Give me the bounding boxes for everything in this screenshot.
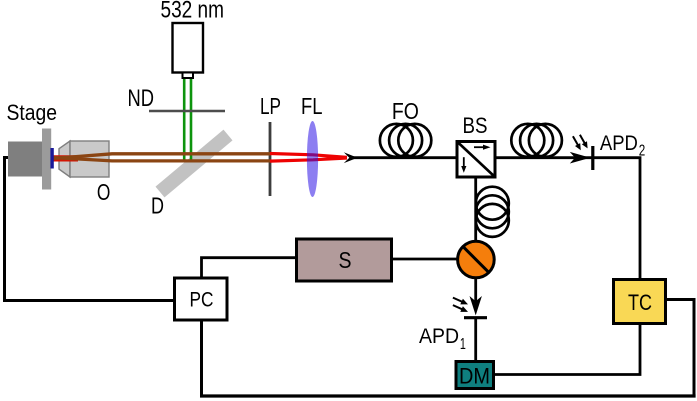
wire APD1 to DM — [474, 319, 477, 361]
red beam cone top — [270, 154, 347, 158]
APD1 facet bar — [464, 316, 487, 319]
svg-text:1: 1 — [460, 336, 466, 353]
ND filter line — [149, 110, 225, 113]
PC box — [175, 278, 228, 320]
wire PC to S — [202, 258, 297, 278]
wire PC to bottom bus — [200, 321, 203, 397]
fiber line BS to APD2 — [495, 156, 592, 159]
S box — [297, 239, 392, 281]
laser nozzle — [183, 73, 194, 79]
TC box — [614, 280, 666, 324]
optical switch (orange) — [458, 241, 495, 278]
photon arrows APD2 — [573, 135, 588, 150]
svg-text:S: S — [339, 247, 352, 273]
svg-text:BS: BS — [463, 113, 488, 138]
photon arrows APD1 — [453, 298, 468, 312]
BS arrow down — [463, 157, 465, 167]
fiber BS down to switch — [474, 177, 477, 243]
green beam line left — [183, 78, 186, 161]
svg-text:2: 2 — [639, 143, 646, 160]
svg-text:532 nm: 532 nm — [161, 0, 225, 24]
red overlap beam at sample — [53, 155, 78, 161]
fiber coil FO — [380, 124, 431, 157]
wire bus to TC right — [666, 300, 694, 397]
laser box — [173, 23, 204, 73]
arrow at fiber focus — [344, 152, 358, 163]
BS diagonal — [457, 142, 495, 178]
fiber switch down to APD1 — [474, 278, 477, 305]
beam splitter BS — [457, 142, 495, 178]
sample (blue bar) — [50, 148, 53, 169]
svg-text:FL: FL — [301, 93, 323, 119]
svg-text:PC: PC — [190, 288, 214, 312]
wire APD2 to TC top — [594, 158, 640, 279]
stage main block — [8, 142, 43, 177]
svg-text:FO: FO — [392, 98, 419, 124]
svg-text:D: D — [151, 193, 164, 219]
green beam line right — [190, 78, 193, 161]
LP filter line — [269, 122, 272, 196]
wire DM to TC bottom — [494, 324, 640, 375]
APD2 facet bar — [591, 146, 594, 170]
arrowhead into APD2 — [570, 152, 591, 164]
stage vertical bar — [42, 129, 51, 190]
fiber coil 3 (vertical) — [476, 187, 509, 237]
brown beam bottom — [54, 158, 271, 161]
svg-text:ND: ND — [128, 85, 155, 112]
wire stage to PC — [5, 158, 175, 301]
fiber line to BS — [352, 156, 456, 159]
objective O trapezoid — [59, 141, 70, 177]
svg-text:APD: APD — [419, 324, 459, 348]
red beam cone bottom — [270, 158, 347, 161]
svg-text:O: O — [97, 179, 111, 205]
DM box — [456, 362, 494, 389]
wire bottom bus — [200, 394, 696, 397]
svg-text:TC: TC — [628, 290, 652, 315]
svg-text:DM: DM — [459, 364, 490, 389]
switch diagonal — [463, 247, 489, 273]
BS arrow right — [474, 146, 484, 148]
objective O body — [70, 141, 109, 177]
svg-text:APD: APD — [600, 131, 638, 155]
wire S to switch — [392, 258, 459, 261]
svg-text:LP: LP — [260, 93, 281, 119]
svg-text:Stage: Stage — [7, 100, 58, 125]
fiber coil 2 — [511, 124, 562, 157]
arrowhead into APD1 — [470, 296, 482, 315]
FL lens — [307, 121, 318, 197]
dichroic mirror D — [160, 135, 228, 192]
brown beam top — [54, 154, 271, 159]
